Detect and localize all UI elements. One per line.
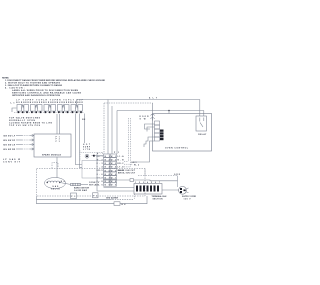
svg-text:BROIL IGN CKT: BROIL IGN CKT <box>118 172 136 174</box>
dashed drop D1 <box>128 118 130 162</box>
connector grid left column <box>104 154 117 186</box>
wire tick <box>111 198 113 200</box>
svg-text:P1: P1 <box>56 136 60 138</box>
gas valve body <box>45 178 66 189</box>
svg-text:SW: SW <box>140 119 146 121</box>
input lead 4 <box>16 148 34 150</box>
svg-text:GRD: GRD <box>174 174 181 176</box>
relay K1 <box>196 116 207 131</box>
spark module SM1 <box>34 134 71 157</box>
junction dot <box>168 110 170 112</box>
dashed exit E3 <box>124 166 131 168</box>
rail L1 top <box>77 99 200 101</box>
wire lower run 1c <box>104 187 135 189</box>
supply plug blades <box>180 188 186 193</box>
switch SW2 <box>31 105 43 112</box>
ground dashed wire <box>138 175 178 177</box>
svg-text:IGN SW LF: IGN SW LF <box>3 135 16 137</box>
bus wire B3 <box>111 106 113 154</box>
ground drop <box>177 176 179 187</box>
wire block drop <box>134 194 136 200</box>
grommet P4 <box>93 193 99 198</box>
svg-text:P3: P3 <box>56 141 60 143</box>
svg-text:BR-5: BR-5 <box>97 170 103 172</box>
svg-text:SPARK MODULE: SPARK MODULE <box>42 154 62 157</box>
svg-text:TOP VLV SW LTS POS: TOP VLV SW LTS POS <box>9 125 41 127</box>
supply plug P4 <box>179 186 187 194</box>
grommet P3 <box>71 193 77 199</box>
range body notch <box>52 163 58 169</box>
supply plug marks <box>186 188 188 193</box>
svg-text:HOT LEAD: HOT LEAD <box>89 183 100 186</box>
switch SW1 contacts <box>18 111 28 113</box>
svg-text:Y-4: Y-4 <box>97 166 103 169</box>
svg-text:GY-7: GY-7 <box>97 177 103 179</box>
wire <box>12 108 17 112</box>
svg-text:BURNER: BURNER <box>57 102 70 104</box>
wire riser to rail <box>76 100 78 105</box>
dashed drop D2 <box>130 118 132 167</box>
bottom wire W2 <box>37 196 148 204</box>
wire control down <box>133 141 155 162</box>
svg-text:BK: BK <box>82 119 86 121</box>
switch SW5 contacts <box>72 111 82 113</box>
svg-text:BURNER: BURNER <box>16 102 29 104</box>
wire hook 1 <box>145 124 155 129</box>
svg-text:OVEN CONTROL: OVEN CONTROL <box>165 148 189 150</box>
svg-text:BK: BK <box>122 204 127 206</box>
wire block to plug <box>162 189 179 191</box>
terminal block TB1 <box>134 184 162 195</box>
range body dashed outline <box>37 169 146 197</box>
switch SW3 contacts <box>45 111 55 113</box>
grid pin labels left <box>97 156 103 187</box>
wire staircase <box>144 137 155 147</box>
svg-text:L1: L1 <box>11 103 16 105</box>
bus wire B1 <box>103 103 105 154</box>
wire drop relay L1 <box>199 100 201 117</box>
indicator filament <box>86 155 88 157</box>
wire valve to ignitor <box>60 183 71 185</box>
bottom wire W1 dashed <box>110 199 134 201</box>
grid pin labels right <box>118 155 125 172</box>
switch SW4 contacts <box>58 111 68 113</box>
input lead 3 <box>16 143 34 145</box>
svg-text:BURNER: BURNER <box>70 102 83 104</box>
svg-text:ALT: ALT <box>149 96 158 99</box>
switch SW3 <box>44 105 56 112</box>
input lead 1 <box>16 134 34 136</box>
svg-text:1 2 3 4 5 6 7: 1 2 3 4 5 6 7 <box>135 181 160 184</box>
bake ignitor R1 <box>71 183 81 185</box>
svg-text:BURNER: BURNER <box>43 102 56 104</box>
rail C mid <box>117 110 204 112</box>
wire indicator to grid <box>96 155 103 157</box>
wire riser V3 <box>84 114 86 144</box>
svg-text:RELAY: RELAY <box>198 133 207 136</box>
switch SW5 <box>71 105 83 112</box>
spark module pin labels <box>56 136 60 142</box>
bus wire B4 <box>116 111 118 155</box>
svg-text:IGN SW LR: IGN SW LR <box>3 144 16 146</box>
wire drop relay R <box>203 111 205 117</box>
indicator light DS1 <box>85 154 89 158</box>
svg-text:IMPROPER AND DANGEROUS OPERATI: IMPROPER AND DANGEROUS OPERATION <box>12 94 60 97</box>
svg-text:O-6: O-6 <box>97 174 103 176</box>
wire drop to control <box>168 111 170 114</box>
svg-text:A-1: A-1 <box>97 152 103 155</box>
switch SW4 <box>58 105 70 112</box>
dashed exit E2 <box>124 163 133 165</box>
gas valve terminal dots 2 <box>59 182 60 183</box>
oven control box <box>153 114 212 152</box>
svg-text:VALVE: VALVE <box>51 188 61 191</box>
svg-text:BURNER: BURNER <box>30 102 43 104</box>
wire riser V2 <box>80 114 82 168</box>
wire riser V1 <box>76 114 83 165</box>
wire lower run 2 <box>97 154 134 192</box>
svg-text:P2: P2 <box>56 139 60 141</box>
inline connector P2 <box>130 179 134 182</box>
connector P5 housing <box>155 121 160 141</box>
wire dashed <box>80 152 103 154</box>
range dashed right edge junction <box>144 169 146 176</box>
switch SW1 <box>17 105 29 112</box>
inline label box <box>114 202 120 206</box>
bottom wire W1 <box>37 196 111 200</box>
svg-text:GLOW BAR: GLOW BAR <box>74 189 88 192</box>
svg-text:120 V: 120 V <box>184 199 192 201</box>
svg-text:BK-1: BK-1 <box>97 156 103 158</box>
svg-text:CONV KIT: CONV KIT <box>3 161 21 163</box>
svg-text:N-B: N-B <box>118 159 125 161</box>
gas valve coil <box>48 181 60 183</box>
dotted contact line <box>14 111 84 113</box>
svg-text:IGN SW RF: IGN SW RF <box>3 140 16 142</box>
svg-text:W-2: W-2 <box>134 165 139 167</box>
terminal block pins <box>136 186 159 192</box>
wire ignitor right <box>81 183 89 185</box>
svg-text:L1-A: L1-A <box>118 155 125 158</box>
bus wire B2 <box>107 100 109 155</box>
enclosure box <box>82 161 104 179</box>
wire module bottom <box>56 157 58 178</box>
thermostat ticks <box>92 155 97 157</box>
svg-text:LITE: LITE <box>83 149 91 151</box>
svg-text:SECTION: SECTION <box>153 199 164 201</box>
rail N dashed <box>104 102 153 104</box>
spark module risers <box>57 114 60 134</box>
svg-text:LT-D: LT-D <box>118 167 125 169</box>
wire hook 2 <box>147 127 155 132</box>
grid inner pin labels <box>105 156 116 187</box>
switch SW2 contacts <box>31 111 41 113</box>
gas valve terminal dots <box>47 182 48 183</box>
wire lower run 1 <box>104 179 131 181</box>
relay contact <box>200 118 204 128</box>
connector P5 pins <box>160 130 164 141</box>
svg-text:R-3: R-3 <box>97 163 103 165</box>
svg-text:IGN SW RR: IGN SW RR <box>3 149 16 151</box>
thermostat contact <box>93 155 95 157</box>
svg-text:DR-C: DR-C <box>118 163 125 165</box>
dashed exit E1 <box>124 161 129 163</box>
input lead 2 <box>16 139 34 141</box>
wire dashed drop <box>79 151 81 161</box>
door plug symbol <box>151 103 155 121</box>
wire lower run 1b <box>134 179 178 182</box>
